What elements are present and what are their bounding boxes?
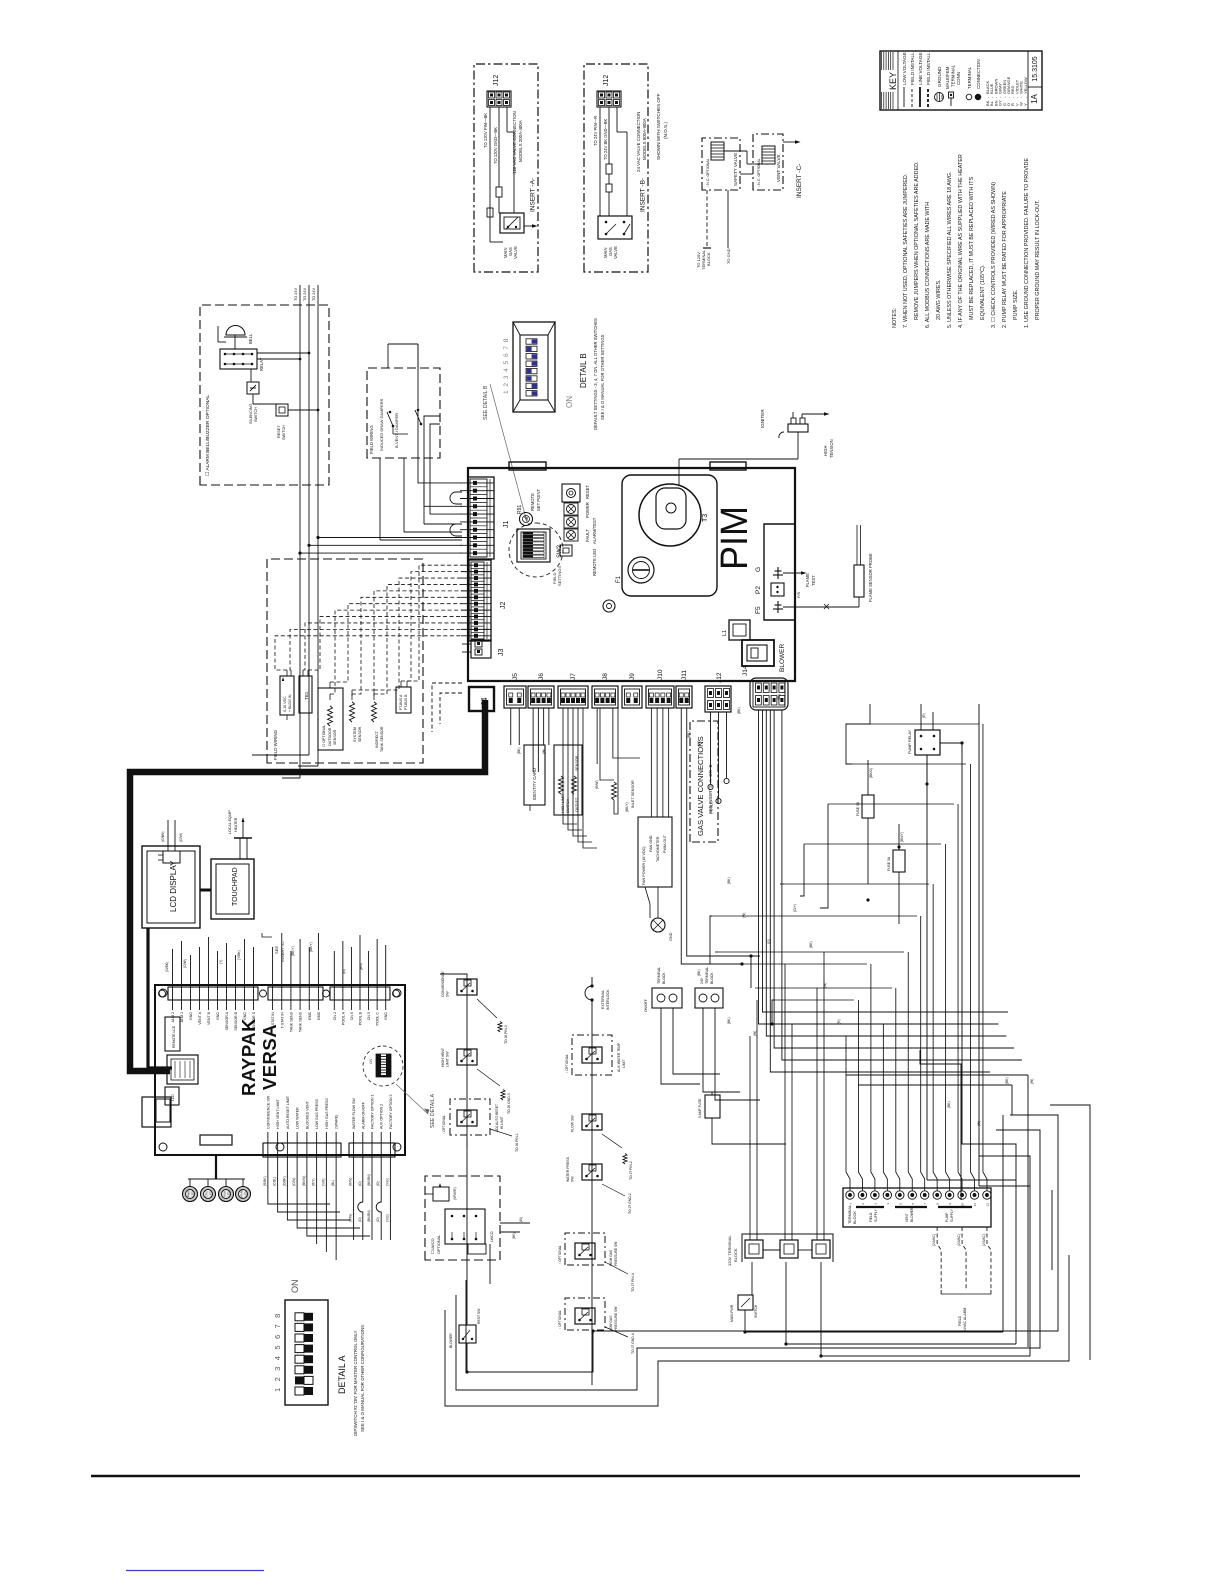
damper option box [367,344,462,540]
svg-text:3: 3 [273,1367,282,1371]
insert A detail box [474,64,538,272]
connector J9 [622,673,642,708]
svg-text:TO J6 PIN-1: TO J6 PIN-1 [515,1133,519,1152]
svg-text:T-STAT IN: T-STAT IN [280,1012,284,1029]
field wiring sensor box [267,559,423,763]
svg-text:J6: J6 [538,673,545,680]
svg-text:EMS: EMS [317,1011,321,1019]
svg-text:(BK/W): (BK/W) [302,1176,306,1186]
svg-text:BLOCKED VENT: BLOCKED VENT [305,1100,309,1129]
wire corridor links [710,704,870,1036]
svg-text:HIGH GAS: HIGH GAS [609,1249,613,1266]
svg-text:TO 24V: TO 24V [303,288,307,301]
svg-text:SUPPLY: SUPPLY [874,1208,878,1222]
VERSA terminal strip 1 [168,937,258,1031]
on-off terminal block 2 [695,967,760,1100]
svg-text:PT-BUS A: PT-BUS A [399,694,403,710]
svg-text:0-10 VDC: 0-10 VDC [283,696,287,712]
svg-text:ON/OFF: ON/OFF [644,999,648,1012]
svg-text:1: 1 [273,1388,282,1392]
svg-text:4. IF ANY OF THE ORIGINAL WIRE: 4. IF ANY OF THE ORIGINAL WIRE AS SUPPLI… [958,154,964,328]
svg-text:TERMINAL: TERMINAL [967,66,972,89]
screw hole [603,600,615,612]
svg-text:INSERT -B-: INSERT -B- [640,178,647,212]
svg-text:(24VAC): (24VAC) [957,1234,961,1246]
svg-text:INTERLOCK: INTERLOCK [606,989,610,1010]
wire LCD to touchpad [200,889,211,892]
flame test wire [783,571,816,598]
fan power block [638,708,672,887]
svg-text:SETTINGS: SETTINGS [557,566,562,586]
svg-text:VERSA: VERSA [259,1024,280,1090]
pump relay [908,704,962,784]
wire J3 harness [432,683,462,732]
svg-text:☐ ALARM BELL/BUZZER OPTIONAL: ☐ ALARM BELL/BUZZER OPTIONAL [205,395,211,476]
svg-text:GND: GND [189,1012,193,1020]
svg-text:SENSOR A: SENSOR A [225,1011,229,1030]
svg-text:VALVE: VALVE [513,246,518,259]
svg-text:TANK SENS: TANK SENS [299,1011,303,1032]
svg-text:GAS VALVE CONNECTIONS: GAS VALVE CONNECTIONS [696,736,705,836]
svg-text:POOL C: POOL C [376,1012,380,1026]
svg-text:TO GND: TO GND [726,248,731,264]
svg-text:(Y/G): (Y/G) [385,1178,389,1186]
svg-text:(W): (W) [742,913,746,918]
svg-text:FIELD INSTALL: FIELD INSTALL [926,52,931,85]
svg-text:1A: 1A [1030,93,1039,103]
svg-text:(R/W): (R/W) [349,1214,353,1222]
svg-text:7. WHEN NOT USED, OPTIONAL SAF: 7. WHEN NOT USED, OPTIONAL SAFETIES ARE … [903,174,909,328]
svg-text:IGNITER: IGNITER [760,409,765,428]
svg-text:POOL B: POOL B [359,1011,363,1025]
svg-text:J11: J11 [681,670,688,680]
svg-text:(BK): (BK) [809,941,813,948]
svg-text:J12: J12 [716,672,723,683]
svg-text:FAN POWER (18 VDC): FAN POWER (18 VDC) [642,846,646,885]
VERSA strip screws [159,990,400,997]
svg-text:TERMINAL: TERMINAL [951,64,956,87]
fuse F1 [616,557,654,583]
svg-text:SEE DETAIL A: SEE DETAIL A [430,1093,436,1128]
connector J14 [742,665,788,710]
svg-text:8: 8 [503,338,510,342]
svg-text:F/S: F/S [796,591,801,598]
svg-text:PUMP: PUMP [945,1212,949,1222]
svg-text:FAN GND: FAN GND [649,835,653,852]
svg-text:HI LIMIT: HI LIMIT [500,1116,504,1129]
svg-text:LED: LED [227,1191,231,1196]
svg-text:LOCAL EQUIP: LOCAL EQUIP [228,810,232,834]
svg-text:ON: ON [565,396,574,408]
svg-text:(W): (W) [697,741,701,746]
wire J5 to identity [511,708,520,745]
see detail A leader [396,1084,436,1128]
svg-text:(BK/BN): (BK/BN) [367,1174,371,1186]
svg-text:PIM: PIM [714,506,756,570]
svg-text:DETAIL B: DETAIL B [579,353,588,388]
svg-text:LIMIT: LIMIT [622,1060,626,1068]
svg-text:FAULT: FAULT [585,529,590,542]
svg-text:(O): (O) [358,1217,362,1222]
svg-text:FACTORY OPTION 3: FACTORY OPTION 3 [389,1094,393,1129]
svg-text:(SPARE): (SPARE) [335,1115,339,1129]
wire J6 harness [533,708,549,772]
chassis ground [645,887,673,941]
svg-text:TO 24V PIM—R: TO 24V PIM—R [593,116,598,146]
svg-text:EMS: EMS [308,1011,312,1019]
svg-text:OPTIONAL: OPTIONAL [437,1235,441,1254]
svg-text:☐ OPTIONAL: ☐ OPTIONAL [322,725,326,747]
wire J11 J12 runs [681,708,751,964]
svg-text:20 AWG WIRES.: 20 AWG WIRES. [936,279,942,320]
connector J2 [461,560,507,641]
svg-text:(N.O.S.): (N.O.S.) [663,122,668,139]
svg-text:SILENCING: SILENCING [249,403,253,424]
svg-text:(Y/R): (Y/R) [321,1179,325,1186]
see insert C label [262,933,285,962]
svg-text:TANK SENSOR: TANK SENSOR [380,726,384,752]
svg-text:J8: J8 [602,673,609,680]
PIM label [714,506,756,570]
svg-text:DEFAULT SETTINGS - 3, 4, 7 ON,: DEFAULT SETTINGS - 3, 4, 7 ON, ALL OTHER… [593,318,598,430]
svg-text:T3: T3 [702,514,709,522]
svg-text:120V TERMINAL: 120V TERMINAL [727,1235,732,1266]
svg-text:ADJ AUTO RESET: ADJ AUTO RESET [495,1104,499,1132]
svg-text:P2: P2 [755,586,762,594]
svg-text:HIGH: HIGH [823,446,828,456]
thick bus from LCD [148,928,172,1068]
svg-text:LIMIT SW: LIMIT SW [446,1051,450,1067]
svg-text:LOW GAS: LOW GAS [609,1315,613,1331]
svg-text:G: G [755,567,762,572]
svg-text:(O): (O) [358,1181,362,1186]
svg-text:STAT: STAT [205,1190,209,1197]
svg-text:GND: GND [243,1012,247,1020]
svg-text:5: 5 [273,1345,282,1349]
svg-text:J2: J2 [500,602,507,610]
VERSA status leds [183,1135,251,1202]
identity card block [524,745,545,811]
svg-text:J10: J10 [657,669,664,680]
svg-text:INSERT -A-: INSERT -A- [530,178,537,212]
connector J7 [558,673,588,708]
svg-text:B-VENT / DAMPER: B-VENT / DAMPER [394,413,399,448]
wire terminal risers [712,724,1028,1347]
svg-text:TB1: TB1 [304,691,309,700]
remote lcd block [165,1017,180,1051]
LCD display [142,846,200,928]
svg-text:1: 1 [503,390,510,394]
svg-text:VENT A: VENT A [198,1011,202,1024]
wire 24V bus [252,285,318,778]
120V terminal block [727,1234,833,1266]
external interlock [585,984,610,1010]
svg-text:(O/W): (O/W) [183,959,187,968]
svg-text:(O/BK): (O/BK) [282,1176,286,1186]
svg-text:PUMP RELAY: PUMP RELAY [908,729,912,754]
insert B note [656,93,668,160]
svg-text:▫ OPTIONAL: ▫ OPTIONAL [442,1115,446,1134]
svg-text:LED: LED [209,1191,213,1196]
notes text block [892,154,1041,328]
svg-text:FIELD WIRING: FIELD WIRING [369,425,374,454]
svg-text:8: 8 [273,1314,282,1318]
svg-text:(BL): (BL) [777,694,781,700]
svg-text:LOW WATER: LOW WATER [296,1107,300,1129]
svg-text:TO 24V: TO 24V [312,288,316,301]
wire J1 harness [298,344,462,555]
svg-text:LCD DISPLAY: LCD DISPLAY [169,860,178,912]
svg-text:FIELD INSTALL: FIELD INSTALL [910,52,915,85]
svg-text:(W): (W) [753,1031,757,1036]
svg-text:LOW GAS PRESS: LOW GAS PRESS [315,1098,319,1129]
svg-text:(BN/Y): (BN/Y) [900,832,904,842]
svg-text:BLOWER: BLOWER [779,644,786,672]
svg-text:SENSOR: SENSOR [333,729,337,745]
svg-text:(C/BL): (C/BL) [273,1177,277,1186]
svg-text:ALM 1: ALM 1 [180,1012,184,1022]
svg-text:3: 3 [503,375,510,379]
svg-text:J14: J14 [742,665,749,676]
svg-text:(BK/G): (BK/G) [869,768,873,778]
svg-text:BLOCK: BLOCK [853,1211,857,1224]
svg-text:PWR: PWR [187,1191,191,1197]
svg-text:GND: GND [384,1012,388,1020]
svg-text:(BK): (BK) [737,707,741,714]
svg-text:REMOTE LCD: REMOTE LCD [172,1025,176,1048]
svg-text:TO J7 GND-2: TO J7 GND-2 [628,1193,632,1214]
svg-text:DETAIL A: DETAIL A [337,1355,347,1394]
svg-text:CONNECTION: CONNECTION [976,59,981,89]
svg-text:(TO J12): (TO J12) [710,801,714,814]
svg-text:HIGH VENT: HIGH VENT [441,1047,445,1067]
svg-text:▫ OPTIONAL: ▫ OPTIONAL [558,1310,562,1329]
wire terminal block runs [846,724,987,1191]
safety switch chain 1 [440,971,519,1325]
svg-text:RESET: RESET [585,485,590,499]
svg-text:POOL A: POOL A [341,1011,345,1025]
svg-text:7: 7 [503,346,510,350]
alarm bell buzzer option box [200,305,329,485]
svg-text:(BK): (BK) [727,877,731,884]
svg-text:SEE I & O MANUAL FOR OTHER CON: SEE I & O MANUAL FOR OTHER CONFIGURATION… [360,1325,365,1432]
VERSA terminal strip A [263,1095,341,1168]
igniter circuit [679,409,834,485]
svg-text:INDUCED DRAW DAMPERS: INDUCED DRAW DAMPERS [379,398,384,451]
svg-text:(R): (R) [922,713,926,718]
svg-text:T-STAT IN: T-STAT IN [271,1012,275,1029]
insert C detail box [696,134,803,270]
SW2 dip switch [509,523,563,586]
svg-text:5 AMP FUSE: 5 AMP FUSE [698,1098,702,1118]
svg-text:(BK): (BK) [687,731,691,738]
svg-text:TOUCHPAD: TOUCHPAD [232,867,239,906]
legend key box [880,51,1042,110]
svg-text:(BK): (BK) [517,747,521,754]
svg-text:F5: F5 [755,606,762,614]
svg-text:BLOCK: BLOCK [710,972,714,984]
junction dots [465,741,963,1373]
VERSA terminal strip 2 [268,933,323,1032]
svg-text:SW: SW [446,991,450,997]
svg-text:ON: ON [290,1280,300,1294]
svg-text:3. ☐ CHECK CONTROLS PROVIDED (: 3. ☐ CHECK CONTROLS PROVIDED (WIRED AS S… [991,182,997,328]
svg-text:2. PUMP RELAY MUST BE RATED FO: 2. PUMP RELAY MUST BE RATED FOR APPROPRI… [1002,191,1008,328]
svg-text:IDENTITY CARD: IDENTITY CARD [532,768,537,800]
connector J5 [504,673,526,708]
svg-text:MUST BE REPLACED, IT MUST BE R: MUST BE REPLACED, IT MUST BE REPLACED WI… [969,176,975,320]
svg-text:TO 120V GND—BK: TO 120V GND—BK [493,127,498,164]
wire 120V block [750,952,824,1240]
svg-text:WATER PRESS: WATER PRESS [566,1156,570,1182]
svg-text:LOW VOLTAGE: LOW VOLTAGE [902,52,907,85]
svg-text:(G/W): (G/W) [179,833,183,842]
VERSA display connector block [167,1055,198,1084]
svg-text:MALE/FEM: MALE/FEM [945,66,950,89]
svg-text:GROUND: GROUND [937,66,942,87]
connector J6 [528,673,554,708]
svg-text:(24VAC): (24VAC) [982,1234,986,1246]
svg-text:DIPSWITCH #2 'ON' FOR MASTER C: DIPSWITCH #2 'ON' FOR MASTER CONTROL ONL… [353,1330,358,1436]
fuse F2 [856,760,874,884]
svg-text:MODELS 200A-400A: MODELS 200A-400A [518,120,523,162]
svg-text:J12: J12 [493,75,500,86]
svg-text:2: 2 [503,383,510,387]
svg-text:REMOVE JUMPERS WHEN OPTIONAL S: REMOVE JUMPERS WHEN OPTIONAL SAFETIES AR… [914,161,920,320]
svg-text:CN 6: CN 6 [350,1012,354,1020]
svg-text:SWITCH: SWITCH [282,425,286,440]
svg-text:FIELD: FIELD [869,1212,873,1222]
svg-text:6: 6 [503,353,510,357]
svg-text:J5: J5 [512,673,519,680]
svg-text:ALARM/TEST: ALARM/TEST [592,517,597,544]
svg-text:SENSOR B: SENSOR B [234,1011,238,1030]
svg-text:HIGH GAS PRESS: HIGH GAS PRESS [325,1098,329,1129]
svg-text:REMOTE: REMOTE [530,493,535,511]
svg-text:FIELD WIRING: FIELD WIRING [273,729,278,760]
fuse F3 [887,824,905,924]
PIM high voltage sub-board [622,475,717,596]
svg-text:TO 120V PIM—BK: TO 120V PIM—BK [483,113,488,148]
svg-text:TO J6 PIN-3: TO J6 PIN-3 [504,1025,508,1044]
svg-text:7: 7 [273,1324,282,1328]
transformer T3 [639,484,709,546]
svg-text:(W): (W) [1030,1079,1034,1084]
svg-text:BLOCK: BLOCK [662,972,666,984]
wire power nest [445,704,1090,1406]
L1 [722,620,750,640]
svg-text:(SPARE): (SPARE) [453,1187,457,1200]
high limit outlet sensor block [554,745,582,815]
inlet sensor [597,708,640,814]
svg-text:L1: L1 [722,630,728,636]
lwco option box [425,1176,500,1260]
svg-text:(C/W): (C/W) [292,1178,296,1186]
VERSA terminal strip 3 [330,935,390,1025]
svg-text:24V: 24V [700,977,704,984]
footer link [126,1570,264,1572]
svg-text:INDIRECT: INDIRECT [375,730,379,748]
insert B detail box [584,64,648,272]
svg-text:WATER FLOW SW: WATER FLOW SW [352,1098,356,1129]
svg-text:TO 24V BK GND—BK: TO 24V BK GND—BK [603,118,608,160]
svg-text:FLAME SENSOR PROBE: FLAME SENSOR PROBE [868,553,873,602]
svg-text:4: 4 [503,368,510,372]
flame sensor probe [783,525,873,609]
svg-text:(BK/Y): (BK/Y) [291,946,295,956]
svg-text:TEST: TEST [811,575,816,586]
wire remote alarm dashed [932,1227,991,1332]
VERSA terminal strip B [349,1094,395,1168]
svg-text:24VAC ALARM: 24VAC ALARM [963,1308,967,1332]
wire lwco [490,1217,530,1284]
svg-text:CN 5: CN 5 [367,1012,371,1020]
svg-text:(W): (W) [823,983,827,988]
svg-text:Y: Y [1023,103,1028,106]
svg-text:SUPPLY: SUPPLY [950,1208,954,1222]
connector J8 [592,673,618,708]
svg-text:(BK/BN): (BK/BN) [367,1210,371,1222]
svg-text:FIELD: FIELD [958,1315,962,1326]
touchpad [211,859,254,919]
svg-text:J12: J12 [603,75,610,86]
footer rule [91,1475,1080,1478]
svg-text:LED: LED [191,1191,195,1196]
svg-text:(W): (W) [519,1217,523,1222]
svg-text:FLOW SW: FLOW SW [571,1115,575,1132]
svg-text:☐ LWCO: ☐ LWCO [431,1238,435,1254]
svg-text:10: 10 [961,1203,965,1207]
svg-text:(BL): (BL) [331,1180,335,1186]
svg-text:VENT B: VENT B [207,1011,211,1025]
svg-text:J9: J9 [629,673,636,680]
R91 pot [517,489,541,526]
wire LCD [161,820,183,851]
svg-text:FUSE 3A: FUSE 3A [856,801,860,816]
svg-text:(O/BK): (O/BK) [165,962,169,972]
detail A dip switch [273,1280,365,1437]
svg-text:ON: ON [369,1058,373,1064]
svg-text:BLOWER: BLOWER [449,1333,453,1348]
svg-text:POWER: POWER [585,502,590,518]
svg-text:(Y/G): (Y/G) [385,1214,389,1222]
svg-text:NOTES:: NOTES: [892,308,898,328]
svg-text:TANK SENS: TANK SENS [289,1011,293,1032]
svg-text:LINE VOLTAGE: LINE VOLTAGE [918,52,923,85]
VERSA aux connector [142,1097,171,1127]
svg-text:SHOWN WITH SWITCHES OFF: SHOWN WITH SWITCHES OFF [656,93,661,160]
svg-text:(W): (W) [977,1121,981,1126]
svg-text:KEY: KEY [888,72,898,90]
svg-text:TO J6 GND-3: TO J6 GND-3 [507,1093,511,1114]
svg-text:(BK): (BK) [697,969,701,976]
svg-text:FACTORY OPTION 1: FACTORY OPTION 1 [371,1094,375,1129]
svg-text:(24VAC): (24VAC) [932,1234,936,1246]
wire J14 runs [759,710,1022,1072]
svg-text:RESET: RESET [277,425,281,438]
svg-text:(O): (O) [376,1217,380,1222]
VERSA misc blocks [156,1087,179,1122]
svg-text:6. ALL MODBUS CONNECTIONS ARE: 6. ALL MODBUS CONNECTIONS ARE MADE WITH [925,202,931,328]
svg-text:(G/Y): (G/Y) [793,904,797,912]
wire J2 harness [275,565,462,700]
svg-text:ALM: ALM [223,1190,227,1196]
VERSA dip switch ref [363,1046,403,1086]
svg-text:AUTO RESET LIMIT: AUTO RESET LIMIT [286,1095,290,1129]
F5 P2 G pins [755,524,795,620]
svg-text:(R/BK): (R/BK) [263,1176,267,1186]
VERSA board outline [155,985,405,1155]
